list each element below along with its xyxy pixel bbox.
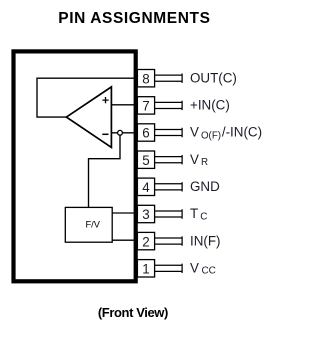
op-amp - input marker	[102, 133, 108, 135]
IC package outline U1	[14, 51, 136, 281]
svg-text:(Front View): (Front View)	[98, 305, 168, 320]
pin 5 box	[137, 151, 154, 168]
svg-text:6: 6	[142, 126, 149, 141]
svg-text:+IN(C): +IN(C)	[190, 98, 230, 113]
pin 2 lead	[155, 236, 183, 245]
pin 7 box	[137, 97, 154, 114]
pin 8 lead	[155, 74, 183, 83]
pin 3 lead	[155, 209, 183, 218]
pin 3 box	[137, 205, 154, 222]
pin 2 box	[137, 232, 154, 249]
op-amp A1 triangle	[66, 87, 111, 147]
svg-text:2: 2	[142, 234, 149, 249]
svg-text:8: 8	[142, 71, 149, 86]
pin 4 lead	[155, 182, 183, 191]
wire F/V to pin 2	[112, 239, 134, 241]
pin 1 box	[137, 260, 154, 277]
wire feedback loop: pin 8 to op-amp output	[37, 78, 134, 117]
svg-text:IN(F): IN(F)	[190, 233, 221, 248]
svg-text:4: 4	[142, 180, 150, 195]
pin 1 lead	[155, 264, 183, 273]
pin 4 box	[137, 178, 154, 195]
svg-text:OUT(C): OUT(C)	[190, 70, 237, 85]
pin 5 lead	[155, 155, 183, 164]
pin 8 box	[137, 70, 154, 87]
op-amp + input marker	[102, 97, 108, 103]
wire node to F/V input	[89, 133, 121, 208]
wire +IN: pin 7 to op-amp + input	[111, 104, 134, 106]
wire -IN: pin 6 to op-amp - input	[111, 132, 134, 134]
svg-text:GND: GND	[190, 179, 220, 194]
svg-text:7: 7	[142, 99, 149, 114]
wire F/V to pin 3	[112, 212, 134, 214]
F/V converter block	[65, 207, 112, 242]
svg-text:5: 5	[142, 153, 149, 168]
pin 6 lead	[155, 128, 183, 137]
svg-text:1: 1	[142, 262, 149, 277]
svg-text:F/V: F/V	[85, 220, 100, 230]
node junction circle on -IN wire	[118, 130, 123, 135]
svg-text:PIN ASSIGNMENTS: PIN ASSIGNMENTS	[58, 10, 210, 27]
pin 6 box	[137, 124, 154, 141]
svg-text:3: 3	[142, 207, 149, 222]
pin 7 lead	[155, 101, 183, 110]
